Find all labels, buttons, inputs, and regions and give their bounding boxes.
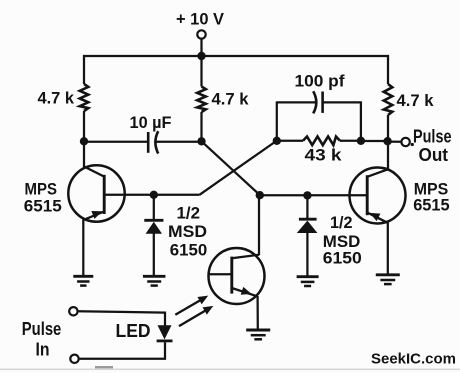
- wire 100pf top-left: [277, 101, 315, 103]
- svg-text:4.7 k: 4.7 k: [212, 90, 250, 109]
- terminal Pulse In bottom: [70, 355, 78, 363]
- wire R3 to node B: [340, 140, 361, 142]
- node D2 anode junction: [303, 191, 311, 199]
- ground Q2: [376, 273, 400, 276]
- phototransistor Q3: [209, 248, 265, 304]
- wire node B to node C: [361, 140, 388, 142]
- wire Q3 collector: [258, 195, 260, 255]
- svg-text:43 k: 43 k: [305, 146, 343, 165]
- transistor Q2 MPS6515: [350, 168, 406, 224]
- node C output junction: [383, 137, 391, 145]
- svg-text:MSD: MSD: [168, 222, 207, 241]
- wire R2 to node M1: [200, 112, 202, 142]
- capacitor C2 100pf: [313, 91, 316, 113]
- svg-text:1/2: 1/2: [330, 213, 353, 232]
- wire rail to R2: [200, 56, 202, 87]
- ground Q3: [246, 329, 270, 332]
- svg-text:6515: 6515: [24, 196, 62, 215]
- wire 100pf left leg: [276, 101, 278, 141]
- node M1: [197, 137, 205, 145]
- wire C1 to node M1: [156, 141, 201, 143]
- wire node C to Pulse Out terminal: [388, 140, 402, 142]
- diode D1 1/2 MSD6150: [144, 219, 163, 222]
- svg-text:Out: Out: [419, 145, 449, 165]
- svg-text:4.7 k: 4.7 k: [38, 89, 75, 108]
- node Q3 collector junction: [256, 191, 264, 199]
- ground D1: [143, 275, 166, 278]
- LED D3: [158, 325, 172, 339]
- dot after terminal: [411, 143, 414, 146]
- wire LED top: [78, 311, 165, 326]
- wire node C to Q2 collector: [387, 141, 389, 170]
- svg-text:100 pf: 100 pf: [295, 72, 345, 91]
- wire cross-couple Q1 base to node A (diagonal): [200, 141, 278, 195]
- wire LED bottom: [79, 342, 165, 359]
- terminal +10V: [197, 30, 205, 38]
- svg-text:1/2: 1/2: [177, 204, 201, 223]
- resistor R1 4.7k: [80, 84, 89, 111]
- wire R1 to node L1: [83, 111, 85, 141]
- resistor R3 43k: [303, 137, 340, 146]
- svg-text:4.7 k: 4.7 k: [397, 91, 435, 110]
- wire terminal to top rail: [200, 39, 202, 56]
- node L1: [80, 137, 88, 145]
- wire cross-couple node M1 to Q2 base net (diagonal): [202, 141, 261, 195]
- wire top rail: [83, 55, 389, 57]
- svg-text:SeekIC.com: SeekIC.com: [371, 351, 456, 368]
- node top-rail junction: [197, 52, 205, 60]
- svg-text:+ 10 V: + 10 V: [176, 11, 224, 29]
- wire node A to R3: [277, 140, 303, 142]
- wire node to D1 cathode: [153, 195, 155, 220]
- resistor R4 4.7k: [384, 84, 393, 115]
- node B 43k-right: [357, 137, 365, 145]
- svg-text:Pulse: Pulse: [22, 319, 62, 339]
- ground D2: [297, 275, 319, 278]
- wire node L1 to Q1 collector: [83, 141, 85, 168]
- svg-text:Pulse: Pulse: [413, 127, 452, 147]
- wire Q3 emitter to ground: [256, 296, 258, 330]
- wire Q2 emitter to ground: [387, 223, 389, 275]
- scan artifact faint line: [0, 368, 460, 370]
- svg-text:10 µF: 10 µF: [130, 113, 172, 132]
- ground Q1: [73, 275, 93, 278]
- light arrow 2 LED to Q3: [179, 311, 206, 327]
- node D1 anode junction: [150, 191, 158, 199]
- light arrow 1 LED to Q3: [175, 300, 200, 315]
- resistor R2 4.7k: [197, 87, 206, 113]
- terminal Pulse In top: [69, 307, 77, 315]
- svg-text:LED: LED: [116, 321, 151, 341]
- wire rail to R4: [387, 55, 389, 84]
- svg-text:6150: 6150: [323, 249, 362, 268]
- svg-text:6150: 6150: [170, 240, 208, 259]
- transistor Q1 MPS6515: [68, 165, 124, 221]
- diode D2 1/2 MSD6150: [299, 218, 317, 221]
- svg-text:6515: 6515: [413, 196, 450, 215]
- node A 43k-left: [273, 137, 281, 145]
- wire node to D2 cathode: [306, 195, 308, 218]
- wire D2 anode to ground: [306, 233, 308, 277]
- wire Q1 base horizontal: [104, 194, 200, 196]
- terminal Pulse Out: [401, 138, 409, 146]
- wire Q1 emitter to ground: [82, 220, 84, 277]
- wire 100pf right leg: [360, 101, 362, 141]
- svg-text:In: In: [36, 339, 50, 359]
- wire 100pf top-right: [323, 101, 361, 103]
- wire node L1 to C1: [84, 141, 148, 143]
- wire rail to R1: [83, 55, 85, 84]
- capacitor C1 10uF: [147, 132, 150, 153]
- wire R4 to node C: [387, 115, 389, 141]
- wire D1 anode to ground: [153, 234, 155, 277]
- wire Q2 base horizontal: [260, 194, 368, 196]
